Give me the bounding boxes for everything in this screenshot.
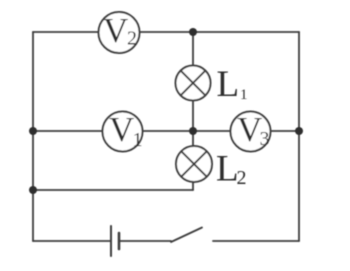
svg-text:1: 1: [133, 129, 143, 151]
svg-text:L: L: [217, 64, 240, 105]
svg-text:1: 1: [240, 87, 248, 103]
svg-text:V: V: [237, 110, 262, 149]
svg-text:3: 3: [260, 128, 270, 150]
svg-text:2: 2: [237, 167, 247, 189]
svg-text:L: L: [216, 149, 239, 190]
svg-text:V: V: [109, 110, 134, 149]
svg-text:2: 2: [127, 28, 137, 50]
svg-text:V: V: [103, 11, 128, 50]
